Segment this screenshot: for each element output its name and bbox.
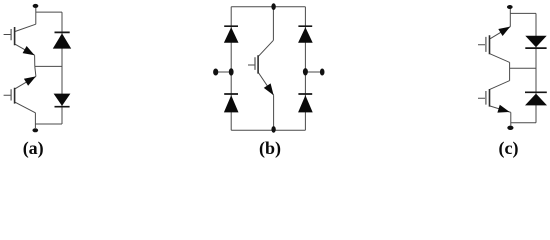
svg-text:(b): (b) <box>259 138 281 159</box>
svg-text:(a): (a) <box>23 138 44 159</box>
svg-text:(c): (c) <box>499 138 519 159</box>
